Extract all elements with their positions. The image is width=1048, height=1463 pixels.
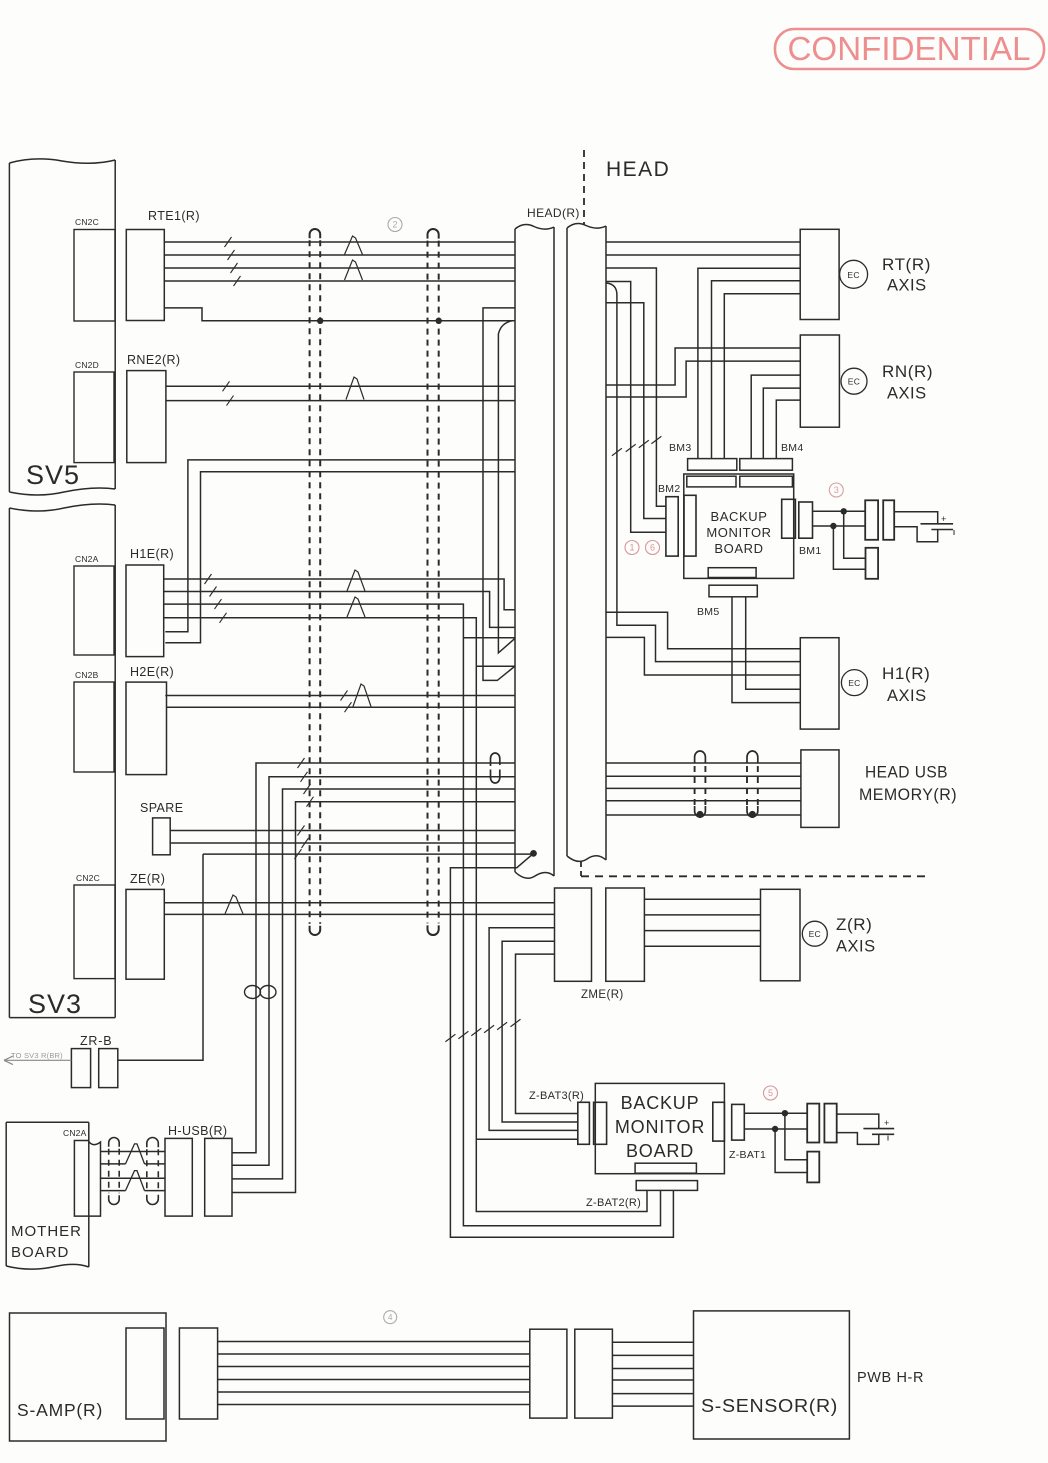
twisted pair capsule on USB wires: [491, 753, 500, 766]
wire HEAD(R) to USB memory drain: [606, 814, 801, 816]
connector H-USB(R) left: [165, 1138, 192, 1216]
wire BM1 pin1 with junction dot: [813, 510, 866, 512]
circled 3: [829, 483, 843, 497]
wire ZE pin1 to ZME: [164, 902, 554, 904]
connector Z battery pair right: [824, 1104, 836, 1143]
svg-text:AXIS: AXIS: [887, 385, 927, 403]
wire RTE1 pin1 to HEAD(R): [164, 241, 515, 243]
wire ZME pin5 down to Z-BAT3: [516, 954, 578, 1113]
wire RTE1 pin2 continuation to RT axis: [606, 254, 800, 256]
cable break RTE1 pair A: [345, 236, 363, 255]
wire Z-BAT1 pin1 with junction dot: [744, 1112, 807, 1114]
wire H1E pin4 branch to Z-BAT3: [476, 1138, 578, 1140]
wire H1E pin1 to HEAD(R): [164, 579, 515, 610]
wire branch to holder 2: [775, 1129, 807, 1173]
wire S cable 6: [218, 1404, 530, 1406]
connector ZME(R) right: [606, 888, 645, 981]
connector Z-BAT3 inner: [594, 1102, 607, 1144]
wire RNE2 pin2 to HEAD(R): [166, 400, 515, 402]
connector BM4 strip: [740, 459, 793, 471]
connector Z battery pair left: [807, 1104, 819, 1143]
connector ZME(R) left: [555, 888, 592, 981]
wire ZME pin3 down to Z-BAT3: [489, 928, 578, 1131]
svg-text:BM1: BM1: [799, 545, 822, 557]
wire S cable 3: [218, 1366, 530, 1368]
connector CN2A (SV3): [74, 566, 114, 655]
connector S mid left: [530, 1329, 567, 1418]
connector S-AMP edge: [126, 1328, 164, 1419]
wire Z-BAT1 pin2 with junction dot: [744, 1128, 807, 1130]
svg-text:6: 6: [650, 543, 655, 553]
wire S cable right 5: [612, 1393, 693, 1395]
svg-text:MONITOR: MONITOR: [615, 1117, 705, 1137]
wire H1E pin3 down bundle to Z-BAT2: [164, 604, 661, 1226]
connector H2E(R): [126, 682, 167, 775]
svg-text:4: 4: [388, 1313, 393, 1322]
svg-text:BACKUP: BACKUP: [710, 509, 767, 524]
svg-text:RTE1(R): RTE1(R): [148, 209, 200, 223]
slash marks RTE1 wires: [225, 237, 232, 247]
wire shield bond to HEAD(R) shell with junction dot: [203, 853, 531, 855]
slash marks USB riser wires: [298, 758, 305, 768]
wire HEAD(R) to USB memory 2: [606, 775, 801, 777]
svg-text:SPARE: SPARE: [140, 801, 183, 815]
connector ZR-B right: [99, 1049, 118, 1088]
wire CN2A to H-USB pair1 twisted: [101, 1144, 166, 1164]
connector BM1 inner: [782, 499, 796, 538]
svg-text:Z-BAT2(R): Z-BAT2(R): [586, 1197, 641, 1209]
wire shield fillet branch B: [498, 321, 515, 653]
wire H-USB riser 4 to HEAD(R): [232, 802, 515, 1193]
svg-text:EC: EC: [848, 678, 860, 688]
svg-text:ZR-B: ZR-B: [80, 1034, 112, 1048]
wire BM4 pin2 to RN axis: [763, 388, 800, 459]
connector SPARE: [153, 818, 171, 855]
wire entry branch A: [483, 308, 515, 681]
wire branch dot1 to holder: [844, 511, 866, 558]
connector CN2C (SV3): [74, 885, 115, 979]
svg-text:HEAD: HEAD: [606, 158, 670, 181]
shield pair 1 (dashed drain wires): [310, 229, 321, 238]
wire HEAD(R) fillet branch to H1 axis: [606, 283, 800, 662]
wire HEAD(R) to USB memory 1: [606, 762, 801, 764]
wire ZME to Z axis 1: [644, 898, 760, 900]
svg-text:RN(R): RN(R): [882, 362, 933, 381]
connector H1E(R): [126, 565, 164, 657]
connector Z-BAT2 board strip: [635, 1163, 696, 1173]
svg-text:CONFIDENTIAL: CONFIDENTIAL: [788, 30, 1031, 67]
ferrite coil symbol on risers: [245, 986, 261, 999]
board SV3 outline: [9, 504, 115, 1018]
wire branch dot2 to holder: [833, 526, 865, 569]
svg-text:BOARD: BOARD: [11, 1244, 69, 1261]
wire BM3 pin1 to RT axis: [698, 268, 800, 458]
encoder circle EC RT: [840, 260, 868, 288]
encoder circle EC Z: [802, 921, 827, 946]
wire H1E pin4 tap into HEAD(R): [476, 665, 515, 667]
wire RTE1 pin2 to HEAD(R): [164, 254, 515, 256]
slash marks H1E wires: [205, 574, 212, 584]
connector CN2B (SV3): [74, 682, 114, 772]
svg-text:RT(R): RT(R): [882, 255, 931, 274]
svg-text:MOTHER: MOTHER: [11, 1223, 82, 1240]
svg-text:TO SV3 R(BR): TO SV3 R(BR): [11, 1051, 63, 1060]
wire RTE1 pin3 continuation to BM2: [606, 268, 666, 506]
connector BM5 outer strip: [709, 585, 757, 597]
svg-text:EC: EC: [847, 270, 859, 280]
wire ZE pin2 to ZME: [164, 913, 554, 915]
wire S cable 5: [218, 1391, 530, 1393]
wire ZME pin4 down to Z-BAT3: [502, 941, 578, 1122]
wire H2E pin2 to HEAD(R): [167, 706, 516, 708]
svg-text:BM2: BM2: [658, 483, 681, 495]
wire BM4 pin3 to RN axis: [776, 400, 800, 459]
block RN(R) AXIS: [800, 335, 839, 427]
circled 6: [646, 541, 660, 555]
svg-text:CN2C: CN2C: [76, 873, 100, 883]
wire RNE2 pin1 to HEAD(R): [166, 385, 515, 387]
svg-text:EC: EC: [848, 377, 860, 387]
wire ZME to Z axis 3: [644, 930, 760, 932]
wire HEAD(R) to H1E pin5: [165, 460, 515, 632]
slash marks SPARE wires: [298, 826, 305, 836]
svg-text:3: 3: [834, 485, 839, 495]
block RT(R) AXIS: [800, 229, 839, 319]
wire RTE1 pin4 to HEAD(R): [164, 280, 515, 282]
svg-text:CN2C: CN2C: [75, 217, 99, 227]
svg-text:Z(R): Z(R): [836, 915, 872, 934]
connector BM3 strip: [688, 459, 737, 471]
wire S cable 1: [218, 1341, 530, 1343]
svg-text:HEAD USB: HEAD USB: [865, 763, 948, 782]
connector RTE1(R): [126, 230, 164, 321]
svg-text:BM5: BM5: [697, 606, 720, 618]
svg-text:ZME(R): ZME(R): [581, 989, 624, 1001]
shield pair USB cable left: [109, 1138, 120, 1147]
wire H1E pin2 to HEAD(R): [164, 592, 515, 628]
wire H1E pin4 down bundle to Z-BAT2: [164, 618, 647, 1212]
wire HEAD(R) exit to H1 pin3: [606, 637, 800, 675]
svg-text:BOARD: BOARD: [714, 541, 763, 556]
wire HEAD(R) to USB memory 4: [606, 800, 801, 802]
wire H-USB riser 1 to HEAD(R): [232, 763, 515, 1153]
wire branch to holder 1: [785, 1113, 807, 1160]
arrow TO SV3 R(BR): [4, 1056, 71, 1065]
circled 1: [625, 541, 639, 555]
wire S cable right 3: [612, 1368, 693, 1370]
wire S cable 4: [218, 1379, 530, 1381]
circled 5: [764, 1086, 778, 1100]
wire S cable right 4: [612, 1379, 693, 1381]
block S-SENSOR(R): [694, 1311, 850, 1439]
wire ZME to Z axis 2: [644, 914, 760, 916]
connector battery pair right: [883, 500, 894, 540]
wire BM5 pin2 to H1 axis: [732, 597, 800, 703]
wire RTE1 shield step wire with junction dots: [164, 308, 515, 321]
wire ZME to Z axis 4: [644, 945, 760, 947]
svg-text:Z-BAT3(R): Z-BAT3(R): [529, 1090, 584, 1102]
svg-text:PWB H-R: PWB H-R: [857, 1370, 924, 1386]
connector Z-BAT1 outer: [732, 1104, 745, 1140]
cable break H1E pair B: [347, 597, 365, 617]
svg-text:AXIS: AXIS: [887, 277, 927, 295]
svg-text:+: +: [884, 1118, 889, 1128]
wire BM1 pin2 with junction dot: [813, 525, 866, 527]
connector HEAD(R) left half: [515, 225, 554, 879]
svg-text:CN2B: CN2B: [75, 670, 99, 680]
connector CN2D (SV5): [74, 372, 114, 463]
cable break ZE: [225, 895, 243, 914]
connector S-AMP cable side: [179, 1328, 217, 1419]
svg-text:CN2D: CN2D: [75, 360, 99, 370]
block HEAD USB MEMORY(R): [801, 750, 839, 828]
svg-text:5: 5: [768, 1088, 773, 1098]
connector ZE(R): [126, 889, 164, 979]
wire H1E pin3 tap into HEAD(R): [463, 637, 515, 639]
wire shell diagonal to bundle: [450, 853, 673, 1237]
wire S cable right 6: [612, 1405, 693, 1407]
shield pair 2 (dashed drain wires): [428, 229, 439, 239]
svg-text:H1(R): H1(R): [882, 664, 930, 683]
svg-text:MEMORY(R): MEMORY(R): [859, 785, 957, 804]
svg-text:BM3: BM3: [669, 442, 692, 454]
CONFIDENTIAL stamp: [775, 29, 1044, 69]
slash marks bundle verticals: [445, 1034, 455, 1042]
encoder circle EC H1: [841, 670, 867, 696]
wire HEAD(R) exit to BM2 middle: [606, 303, 666, 519]
svg-text:+: +: [941, 514, 946, 524]
connector Z battery holder: [807, 1152, 819, 1183]
encoder circle EC RN: [841, 368, 867, 394]
circled 4: [384, 1311, 397, 1324]
wire BM4 pin1 to RN axis: [751, 375, 800, 459]
wire CN2A to H-USB pair2 twisted: [101, 1171, 166, 1191]
svg-text:S-AMP(R): S-AMP(R): [17, 1400, 103, 1420]
svg-text:AXIS: AXIS: [887, 687, 927, 705]
svg-text:CN2A: CN2A: [63, 1128, 87, 1138]
wire shield bond down to ZR-B: [118, 854, 203, 1060]
shield pair USB cable right: [147, 1138, 159, 1148]
svg-text:ZE(R): ZE(R): [130, 872, 165, 886]
connector board-side strip right: [740, 476, 793, 487]
board BACKUP MONITOR BOARD lower: [595, 1083, 724, 1173]
svg-text:SV3: SV3: [28, 989, 82, 1019]
slash mark shield bond wire: [295, 849, 302, 859]
wire SPARE pin1 to HEAD(R): [170, 830, 515, 832]
connector board-side strip left: [687, 476, 736, 487]
svg-text:Z-BAT1: Z-BAT1: [729, 1149, 766, 1161]
wire BM5 pin1 to H1 axis: [746, 597, 801, 689]
connector CN2C (SV5): [74, 230, 115, 322]
cable break RNE2: [346, 377, 364, 400]
svg-text:MONITOR: MONITOR: [706, 525, 771, 540]
board BACKUP MONITOR BOARD upper: [684, 474, 794, 578]
connector BM5 board-side strip: [708, 568, 756, 578]
svg-text:H2E(R): H2E(R): [130, 665, 174, 679]
connector battery pair left: [865, 500, 878, 540]
wire RTE1 pin1 continuation to RT axis: [606, 241, 800, 243]
svg-text:BOARD: BOARD: [626, 1141, 694, 1161]
connector ZR-B left: [71, 1049, 90, 1088]
wire RTE1 pin3 to HEAD(R): [164, 267, 515, 269]
wire BM3 pin3 to RT axis: [724, 294, 800, 459]
slash marks RNE2 wires: [223, 381, 230, 391]
cable break RTE1 pair B: [345, 260, 363, 280]
slash marks HEAD(R) exit verticals: [612, 448, 622, 456]
svg-text:1: 1: [629, 543, 634, 553]
connector Z-BAT2 outer strip: [636, 1181, 697, 1191]
connector CN2A mother board: [74, 1141, 100, 1217]
block H1(R) AXIS: [800, 638, 839, 729]
svg-text:SV5: SV5: [26, 460, 80, 490]
connector RNE2(R): [127, 371, 166, 463]
wire RNE2 pin1 continuation to RN axis: [606, 348, 800, 385]
battery BT2: [837, 1114, 895, 1144]
block S-AMP(R): [10, 1313, 167, 1441]
svg-text:HEAD(R): HEAD(R): [527, 206, 580, 220]
shield symbol on USB cable 1: [695, 751, 706, 818]
wire RTE1 pin4 continuation to BM2: [606, 282, 666, 533]
connector BM1 outer: [799, 502, 813, 538]
svg-text:BM4: BM4: [781, 442, 804, 454]
svg-text:RNE2(R): RNE2(R): [127, 353, 181, 367]
wire HEAD(R) to USB memory 3: [606, 787, 801, 789]
connector Z-BAT3 outer: [578, 1102, 590, 1144]
connector BM2 inner: [684, 495, 696, 556]
connector BM2 outer: [666, 497, 678, 556]
HEAD boundary dashed line: [581, 150, 928, 876]
connector HEAD(R) right half: [567, 224, 606, 862]
svg-text:CN2A: CN2A: [75, 554, 99, 564]
cable break H2E: [353, 684, 371, 707]
wire RNE2 pin2 continuation to RN axis: [606, 361, 800, 397]
wire H2E pin1 to HEAD(R): [165, 695, 515, 697]
svg-text:BACKUP: BACKUP: [621, 1093, 700, 1113]
svg-text:H1E(R): H1E(R): [130, 547, 174, 561]
wire HEAD(R) exit to H1 pin1: [606, 612, 800, 649]
wire HEAD(R) to H1E pin6: [165, 472, 515, 643]
svg-text:H-USB(R): H-USB(R): [168, 1124, 227, 1138]
block Z(R) AXIS: [761, 889, 801, 981]
connector battery holder: [866, 548, 879, 579]
connector H-USB(R) right: [205, 1138, 232, 1216]
slash marks H2E wires: [341, 691, 348, 701]
connector Z-BAT1 inner: [713, 1102, 725, 1141]
battery BT1: [894, 512, 954, 542]
wire S cable right 2: [612, 1354, 693, 1356]
wire S cable right 1: [612, 1341, 693, 1343]
wire H-USB riser 2 to HEAD(R): [232, 777, 515, 1165]
shield symbol on USB cable 2: [747, 751, 758, 818]
wire H-USB riser 3 to HEAD(R): [232, 789, 515, 1179]
cable break H1E pair A: [347, 570, 365, 591]
connector S mid right: [575, 1329, 613, 1418]
svg-text:S-SENSOR(R): S-SENSOR(R): [701, 1396, 838, 1416]
wire BM3 pin2 to RT axis: [712, 281, 801, 459]
board SV5 outline: [9, 159, 115, 495]
svg-text:AXIS: AXIS: [836, 938, 876, 956]
circled 2: [388, 218, 402, 232]
svg-text:EC: EC: [809, 929, 821, 939]
board MOTHER BOARD: [6, 1122, 89, 1269]
wire SPARE pin2 to HEAD(R): [170, 842, 515, 844]
svg-text:2: 2: [392, 220, 397, 230]
wire S cable 2: [218, 1353, 530, 1355]
